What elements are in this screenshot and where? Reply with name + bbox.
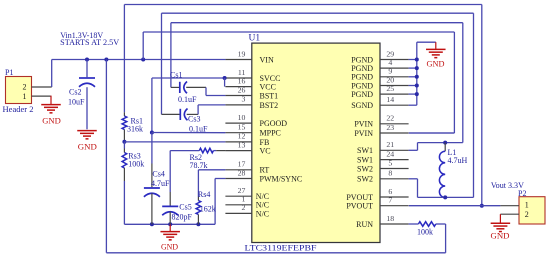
svg-text:RT: RT xyxy=(260,166,270,175)
svg-text:Cs3: Cs3 xyxy=(188,115,200,124)
svg-text:Cs1: Cs1 xyxy=(170,71,182,80)
svg-text:1: 1 xyxy=(525,200,529,209)
svg-text:Rs4: Rs4 xyxy=(198,190,210,199)
svg-text:LTC3119EFEPBF: LTC3119EFEPBF xyxy=(245,243,317,252)
svg-text:GND: GND xyxy=(427,60,445,69)
svg-text:22: 22 xyxy=(386,114,394,123)
svg-text:N/C: N/C xyxy=(256,209,269,218)
svg-text:13: 13 xyxy=(238,140,246,149)
svg-text:GND: GND xyxy=(42,116,61,125)
svg-text:Cs5: Cs5 xyxy=(179,203,191,212)
svg-text:100k: 100k xyxy=(128,159,144,168)
svg-text:19: 19 xyxy=(238,49,246,58)
svg-text:0.1uF: 0.1uF xyxy=(189,124,208,133)
svg-text:PVOUT: PVOUT xyxy=(346,193,373,202)
svg-text:BST2: BST2 xyxy=(260,101,279,110)
svg-text:STARTS AT 2.5V: STARTS AT 2.5V xyxy=(60,38,119,47)
svg-text:PVOUT: PVOUT xyxy=(346,202,373,211)
svg-text:GND: GND xyxy=(78,142,97,151)
svg-text:PGND: PGND xyxy=(351,90,373,99)
svg-text:PGOOD: PGOOD xyxy=(260,119,288,128)
svg-text:GND: GND xyxy=(491,231,510,240)
svg-text:VIN: VIN xyxy=(260,55,274,64)
svg-text:24: 24 xyxy=(386,149,394,158)
svg-text:26: 26 xyxy=(238,85,246,94)
svg-text:SW2: SW2 xyxy=(357,164,373,173)
svg-text:21: 21 xyxy=(386,140,394,149)
svg-text:Cs2: Cs2 xyxy=(69,88,81,97)
svg-text:4.7uH: 4.7uH xyxy=(448,156,468,165)
svg-text:3: 3 xyxy=(241,95,245,104)
svg-text:2: 2 xyxy=(23,83,27,92)
svg-text:SW1: SW1 xyxy=(357,156,373,165)
svg-text:PVIN: PVIN xyxy=(354,129,373,138)
svg-text:28: 28 xyxy=(238,168,246,177)
svg-text:16: 16 xyxy=(238,76,246,85)
svg-text:4: 4 xyxy=(388,58,392,67)
svg-text:6: 6 xyxy=(388,187,392,196)
svg-text:SGND: SGND xyxy=(351,101,373,110)
svg-text:820pF: 820pF xyxy=(172,213,193,222)
svg-text:100k: 100k xyxy=(417,227,433,236)
svg-text:15: 15 xyxy=(238,123,246,132)
svg-text:PGND: PGND xyxy=(351,73,373,82)
svg-text:2: 2 xyxy=(241,203,245,212)
svg-text:GND: GND xyxy=(161,243,178,252)
svg-text:12: 12 xyxy=(238,132,246,141)
svg-text:RUN: RUN xyxy=(356,220,373,229)
svg-text:VCC: VCC xyxy=(260,83,276,92)
svg-text:2: 2 xyxy=(525,210,529,219)
svg-text:U1: U1 xyxy=(249,34,261,44)
svg-text:1: 1 xyxy=(23,92,27,101)
svg-text:PGND: PGND xyxy=(351,64,373,73)
svg-text:10uF: 10uF xyxy=(68,97,85,106)
svg-text:23: 23 xyxy=(386,123,394,132)
svg-text:10: 10 xyxy=(238,113,246,122)
svg-text:PWM/SYNC: PWM/SYNC xyxy=(260,174,303,183)
svg-text:4.7uF: 4.7uF xyxy=(151,179,170,188)
svg-text:PVIN: PVIN xyxy=(354,120,373,129)
svg-text:316k: 316k xyxy=(127,124,143,133)
svg-text:MPPC: MPPC xyxy=(260,129,281,138)
svg-text:14: 14 xyxy=(386,95,394,104)
svg-text:Header 2: Header 2 xyxy=(3,105,34,114)
svg-text:17: 17 xyxy=(238,160,246,169)
svg-text:78.7k: 78.7k xyxy=(190,161,208,170)
svg-text:0.1uF: 0.1uF xyxy=(178,95,197,104)
svg-text:P1: P1 xyxy=(5,68,13,77)
svg-text:Cs4: Cs4 xyxy=(152,169,164,178)
svg-text:SW2: SW2 xyxy=(357,175,373,184)
svg-text:BST1: BST1 xyxy=(260,91,279,100)
svg-text:7: 7 xyxy=(388,196,392,205)
svg-text:8: 8 xyxy=(388,169,392,178)
svg-text:VC: VC xyxy=(260,147,271,156)
svg-text:FB: FB xyxy=(260,138,270,147)
svg-text:9: 9 xyxy=(388,67,392,76)
svg-text:25: 25 xyxy=(386,84,394,93)
svg-text:5: 5 xyxy=(388,158,392,167)
svg-text:SW1: SW1 xyxy=(357,146,373,155)
svg-text:18: 18 xyxy=(386,214,394,223)
svg-text:162k: 162k xyxy=(200,205,216,214)
